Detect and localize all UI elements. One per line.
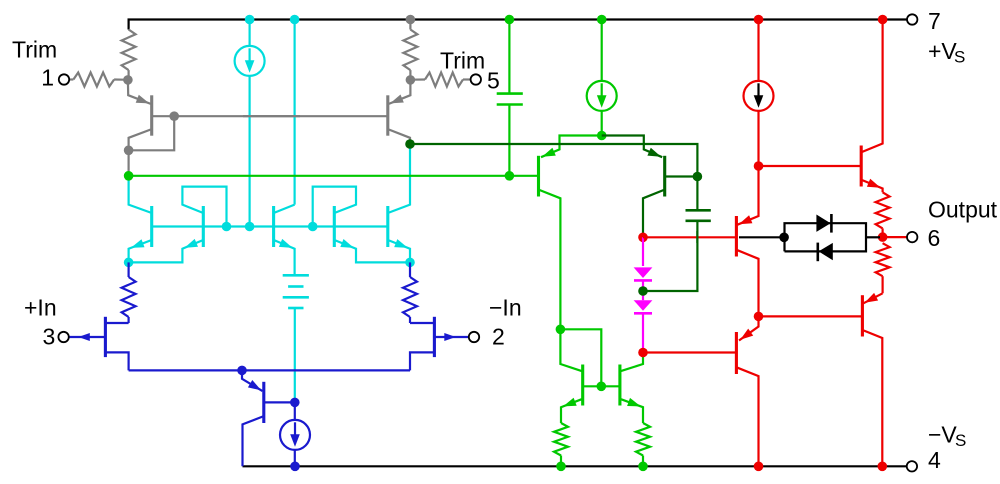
transistor Q9 bottom lead bbox=[410, 352, 434, 370]
current source I3 bbox=[587, 81, 617, 111]
resistor R1 trim left vertical bbox=[122, 30, 136, 80]
transistor Q12 bar bbox=[663, 156, 666, 197]
transistor Q11 emitter bbox=[541, 136, 602, 158]
transistor Q16 base wire red bbox=[643, 236, 736, 238]
transistor Q10 base bbox=[264, 401, 295, 403]
transistor Q2 collector bbox=[389, 130, 410, 145]
transistor Q12 collector bbox=[643, 190, 664, 237]
node R8 bottom rail bbox=[638, 462, 648, 472]
transistor Q13 emitter bbox=[561, 398, 582, 423]
transistor Q7 collector bbox=[389, 144, 410, 213]
label pin 3 bbox=[43, 324, 56, 350]
node red driver junction bbox=[754, 312, 764, 322]
resistor R4 trim right horizontal bbox=[410, 73, 470, 87]
label Trim left bbox=[12, 37, 57, 63]
resistor R10 red lower bbox=[876, 243, 890, 293]
node trim5 junction bbox=[406, 75, 416, 85]
transistor Q16 collector bbox=[737, 250, 758, 316]
transistor Q5 collector bbox=[275, 205, 295, 213]
terminal pin 1 bbox=[59, 74, 69, 84]
node magenta mid junction bbox=[638, 286, 648, 296]
transistor Q14 collector bbox=[621, 353, 643, 372]
node green cap junction bbox=[505, 171, 515, 181]
transistor Q8 bar bbox=[104, 317, 107, 357]
svg-text:1: 1 bbox=[41, 65, 54, 91]
node trim1 junction bbox=[123, 75, 133, 85]
resistor R8 green right bbox=[636, 423, 650, 466]
node black junction bbox=[779, 233, 789, 243]
wire black base link bbox=[739, 236, 785, 238]
node top rail cyan cs bbox=[245, 15, 255, 25]
wire -Vs bottom supply rail bbox=[243, 465, 907, 467]
wire cyan supply column bbox=[294, 20, 296, 205]
resistor R2 trim left horizontal bbox=[73, 73, 124, 87]
transistor Q15 bar bbox=[860, 146, 863, 187]
wire cyan cs to base rail bbox=[249, 76, 251, 227]
transistor Q8 bottom lead bbox=[105, 352, 128, 370]
transistor Q5 emitter bbox=[275, 239, 295, 275]
transistor Q5 bar bbox=[272, 206, 275, 247]
transistor Q18 bar bbox=[861, 295, 864, 336]
svg-text:2: 2 bbox=[492, 324, 505, 350]
label pin 5 bbox=[487, 68, 500, 94]
wire green mirror jog bbox=[560, 329, 601, 386]
wire dark green rail bbox=[410, 144, 697, 177]
resistor R3 trim right vertical bbox=[403, 20, 417, 80]
resistor R6 blue right bbox=[403, 262, 417, 323]
terminal pin 3 bbox=[58, 332, 68, 342]
node top rail gray junction bbox=[406, 15, 416, 25]
node Q4 hook junction bbox=[222, 222, 232, 232]
node top rail red right bbox=[878, 15, 888, 25]
transistor Q10 emitter bbox=[242, 370, 263, 391]
transistor Q9 base wire bbox=[434, 333, 468, 341]
transistor Q6 bar bbox=[333, 206, 336, 247]
wire Q1-Q2 base rail overlay bbox=[243, 115, 300, 117]
current source I4 bbox=[744, 81, 774, 111]
node Q3 collector green junction bbox=[124, 171, 134, 181]
diode D1 bbox=[634, 267, 653, 280]
wire +Vs top supply rail bbox=[129, 20, 907, 30]
wire green base rail bbox=[129, 175, 539, 177]
resistor R5 blue left bbox=[122, 262, 136, 323]
current source I2 bbox=[280, 402, 310, 466]
wire cyan base rail bbox=[152, 225, 388, 227]
battery B1 plate3 bbox=[283, 296, 309, 299]
svg-text:5: 5 bbox=[487, 68, 500, 94]
wire magenta top bbox=[642, 237, 644, 266]
battery B1 plate2 bbox=[288, 285, 303, 288]
label Output bbox=[928, 196, 998, 222]
svg-text:3: 3 bbox=[43, 324, 56, 350]
transistor Q2 emitter bbox=[389, 80, 411, 104]
svg-text:7: 7 bbox=[928, 8, 941, 34]
wire red base link lower bbox=[759, 315, 863, 317]
svg-text:S: S bbox=[954, 48, 965, 67]
wire diode box bbox=[785, 223, 881, 251]
node blue emitter bus junction bbox=[237, 366, 247, 376]
label pin 6 bbox=[928, 225, 941, 251]
transistor Q1 collector bbox=[129, 130, 151, 151]
transistor Q1 emitter bbox=[128, 80, 151, 104]
label pin 4 bbox=[928, 447, 941, 473]
svg-text:Trim: Trim bbox=[12, 37, 57, 63]
transistor Q12 emitter bbox=[602, 136, 663, 158]
diode D2 bbox=[634, 300, 653, 313]
terminal pin 4 bbox=[907, 461, 917, 471]
transistor Q13 collector bbox=[560, 329, 581, 371]
node Q2 collector junction bbox=[405, 139, 415, 149]
label -Vs bbox=[928, 422, 966, 451]
transistor Q12 base bbox=[665, 175, 698, 177]
node R7 bottom rail bbox=[556, 462, 566, 472]
transistor Q8 base wire bbox=[69, 333, 106, 341]
transistor Q3 collector bbox=[129, 176, 151, 213]
battery B1 plate1 bbox=[283, 274, 309, 277]
capacitor C1 plate2 bbox=[497, 103, 523, 106]
node Q10 base junction bbox=[290, 398, 300, 408]
resistor R9 red upper bbox=[876, 192, 890, 237]
terminal pin 2 bbox=[469, 332, 479, 342]
transistor Q8 top lead bbox=[105, 322, 128, 324]
transistor Q18 emitter bbox=[863, 293, 882, 303]
label pin 1 bbox=[41, 65, 54, 91]
transistor Q4 bar bbox=[202, 206, 205, 247]
wire magenta mid bbox=[642, 280, 644, 300]
node I2 bottom rail bbox=[290, 462, 300, 472]
svg-text:−In: −In bbox=[489, 295, 522, 321]
node top rail green cap bbox=[505, 15, 515, 25]
transistor Q17 bar bbox=[735, 332, 738, 374]
wire magenta bottom bbox=[642, 313, 644, 352]
node red cs junction bbox=[754, 161, 764, 171]
node green emitter junction bbox=[597, 131, 607, 141]
svg-text:Trim: Trim bbox=[440, 48, 485, 74]
wire red cs top bbox=[757, 20, 759, 82]
label Trim right bbox=[440, 48, 485, 74]
svg-text:+In: +In bbox=[24, 295, 57, 321]
transistor Q6 collector hook bbox=[313, 187, 356, 227]
transistor Q15 collector bbox=[862, 20, 882, 152]
transistor Q1 base bbox=[152, 115, 175, 117]
node Q17 bottom rail bbox=[754, 462, 764, 472]
transistor Q7 bar bbox=[386, 206, 389, 247]
terminal pin 5 bbox=[471, 74, 481, 84]
battery B1 plate4 bbox=[288, 307, 303, 310]
wire dark green cap bottom lead bbox=[643, 221, 697, 291]
wire trim1 lead bbox=[69, 78, 73, 80]
transistor Q3 bar bbox=[150, 206, 153, 247]
node green mirror in bbox=[556, 325, 566, 335]
transistor Q9 top lead bbox=[410, 322, 434, 324]
node red lower base junction bbox=[638, 348, 648, 358]
transistor Q11 collector bbox=[540, 190, 561, 329]
battery B1 bottom lead bbox=[294, 308, 296, 402]
transistor Q7 emitter bbox=[389, 239, 410, 262]
transistor Q3 emitter bbox=[129, 239, 151, 262]
wire green cap top bbox=[508, 20, 510, 94]
label pin 2 bbox=[492, 324, 505, 350]
transistor Q10 bar bbox=[262, 382, 265, 423]
wire dark green cap top lead bbox=[696, 177, 698, 211]
transistor Q11 bar bbox=[537, 156, 540, 197]
transistor Q9 bar bbox=[433, 317, 436, 357]
capacitor C2 plate1 bbox=[686, 209, 711, 212]
wire blue emitter bus bbox=[129, 369, 410, 371]
current source I1 bbox=[235, 46, 265, 76]
node red second stage out bbox=[638, 233, 648, 243]
wire Q1 diode loop bbox=[129, 116, 175, 150]
node Q1 base junction bbox=[169, 111, 179, 121]
transistor Q15 emitter bbox=[862, 179, 882, 193]
transistor Q4 emitter bbox=[129, 239, 203, 263]
label +In bbox=[24, 295, 57, 321]
terminal pin 7 bbox=[907, 14, 917, 24]
node cyan left emitter junction bbox=[124, 258, 134, 268]
diode D3 bbox=[816, 214, 831, 233]
node green mirror base junction bbox=[597, 382, 607, 392]
label +Vs bbox=[928, 38, 965, 67]
svg-text:−V: −V bbox=[928, 422, 957, 448]
transistor Q17 base wire bbox=[643, 351, 736, 353]
capacitor C2 plate2 bbox=[686, 220, 711, 223]
label pin 7 bbox=[928, 8, 941, 34]
capacitor C1 plate1 bbox=[497, 92, 523, 95]
wire output stub bbox=[883, 236, 907, 238]
transistor Q4 collector hook bbox=[182, 187, 226, 227]
transistor Q16 bar bbox=[735, 216, 738, 257]
wire green cap bottom bbox=[508, 105, 510, 176]
transistor Q14 bar bbox=[618, 365, 621, 406]
node Q6 hook junction bbox=[308, 222, 318, 232]
transistor Q6 emitter bbox=[335, 239, 410, 262]
wire dark green crossing overlay bbox=[696, 231, 698, 243]
transistor Q1 bar bbox=[150, 95, 153, 135]
node output junction bbox=[878, 232, 888, 242]
terminal pin 6 bbox=[907, 232, 917, 242]
transistor Q16 emitter bbox=[738, 166, 759, 225]
label -In bbox=[489, 295, 522, 321]
node Q12 base junction bbox=[693, 172, 703, 182]
svg-text:6: 6 bbox=[928, 225, 941, 251]
svg-text:S: S bbox=[955, 431, 966, 450]
wire cyan cs top bbox=[249, 20, 251, 47]
transistor Q10 collector bbox=[243, 417, 263, 467]
transistor Q15 base wire bbox=[759, 165, 862, 167]
wire green cs bottom bbox=[601, 111, 603, 136]
node top rail green cs bbox=[597, 15, 607, 25]
wire Q1 collector down bbox=[128, 150, 130, 176]
node cyan base rail cs junction bbox=[245, 222, 255, 232]
node top rail red cs bbox=[754, 15, 764, 25]
node Q1 collector junction bbox=[124, 146, 134, 156]
transistor Q17 emitter bbox=[739, 316, 759, 340]
node Q18 bottom rail bbox=[878, 462, 888, 472]
svg-text:Output: Output bbox=[928, 196, 998, 222]
wire Q1-Q2 base rail bbox=[174, 115, 388, 117]
transistor Q14 emitter bbox=[621, 398, 643, 423]
wire green mirror base bbox=[583, 385, 620, 387]
wire green cs top bbox=[601, 20, 603, 82]
wire red cs bottom bbox=[757, 111, 759, 166]
transistor Q2 bar bbox=[386, 95, 389, 135]
resistor R7 green left bbox=[554, 423, 568, 466]
transistor Q18 collector bbox=[863, 330, 882, 466]
svg-text:4: 4 bbox=[928, 447, 941, 473]
transistor Q17 collector bbox=[737, 368, 758, 467]
node cyan right emitter junction bbox=[405, 258, 415, 268]
diode D4 bbox=[818, 243, 833, 262]
transistor Q13 bar bbox=[581, 365, 584, 406]
node top rail cyan wire bbox=[290, 15, 300, 25]
